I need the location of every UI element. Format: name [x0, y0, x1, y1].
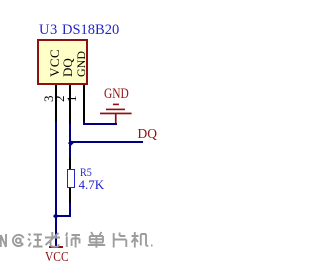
IC U3 DS18B20 body [37, 39, 88, 85]
pin 1 lead [83, 85, 85, 122]
power port VCC bar [49, 246, 64, 248]
power port VCC label [45, 251, 69, 264]
power port GND label [104, 87, 129, 102]
ground bar short [113, 104, 119, 106]
watermark @ sign [13, 235, 24, 246]
watermark char 汪 [28, 234, 43, 247]
watermark char 片 [114, 233, 127, 248]
IC U3 designator label [39, 23, 58, 38]
resistor designator R5 [80, 166, 92, 178]
watermark strokes (gray) [0, 228, 163, 252]
ground bar long [100, 113, 132, 115]
watermark char 单 [88, 232, 105, 248]
wire: horizontal joining VCC net [56, 215, 71, 217]
resistor R5 body [67, 169, 75, 188]
pin name VCC (pin 3) [48, 48, 61, 76]
resistor R5 bottom pin [69, 188, 71, 204]
pin number 1 [65, 96, 78, 103]
wire: VCC net vertical (pin3 down to power bar) [55, 121, 57, 247]
IC U3 value label DS18B20 [62, 23, 119, 38]
net label DQ [138, 127, 158, 141]
pin name GND (pin 1) [75, 51, 87, 77]
watermark char 机 [132, 232, 149, 248]
ground symbol bars [96, 100, 136, 126]
wire: pin1 down to corner [83, 121, 85, 125]
wire: DQ horizontal [70, 141, 143, 143]
pin number 3 [42, 96, 55, 103]
watermark char 老 [45, 232, 60, 247]
pin number 2 [53, 96, 66, 103]
wire: horizontal to ground stem [83, 123, 117, 125]
ground stem [115, 114, 117, 124]
ground bar middle [106, 109, 125, 111]
wire: resistor bottom down to VCC net [69, 203, 71, 217]
watermark period [151, 245, 153, 247]
resistor R5 top pin [69, 158, 71, 169]
wire: pin2 down to DQ junction [69, 124, 71, 158]
pin 3 lead [55, 85, 57, 121]
resistor value 4.7K [79, 178, 105, 191]
watermark letter N fragment [1, 234, 6, 247]
junction at DQ node [68, 140, 73, 145]
pin name DQ (pin 2) [61, 58, 74, 77]
pin 2 lead [69, 85, 71, 124]
watermark char 师 [66, 233, 80, 248]
junction at VCC net [53, 213, 58, 218]
